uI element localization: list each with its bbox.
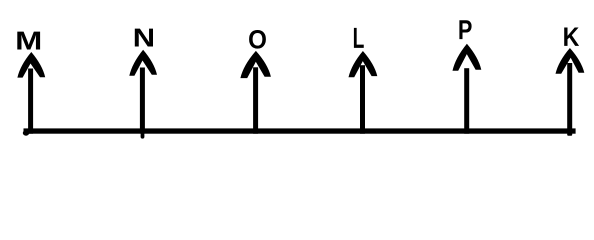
arrow O shaft bbox=[253, 67, 258, 133]
arrow P shaft bbox=[464, 68, 469, 134]
arrow L head bbox=[349, 51, 378, 77]
arrow N head bbox=[129, 50, 157, 76]
nub under K bbox=[567, 133, 572, 136]
nub under N bbox=[141, 133, 145, 139]
arrow N shaft bbox=[140, 68, 145, 134]
arrow O head bbox=[240, 51, 271, 78]
arrow P head bbox=[453, 44, 482, 71]
label K bbox=[564, 27, 579, 45]
label P bbox=[459, 20, 471, 39]
arrow K head bbox=[556, 48, 585, 74]
arrow M shaft bbox=[28, 69, 33, 134]
label L bbox=[354, 28, 364, 48]
arrow M head bbox=[17, 52, 45, 78]
baseline left end blob bbox=[23, 130, 29, 135]
arrow K shaft bbox=[567, 63, 572, 134]
baseline bbox=[24, 128, 576, 133]
label N bbox=[135, 29, 153, 47]
label O bbox=[249, 30, 266, 49]
arrow L shaft bbox=[360, 65, 365, 134]
label M bbox=[17, 32, 40, 50]
